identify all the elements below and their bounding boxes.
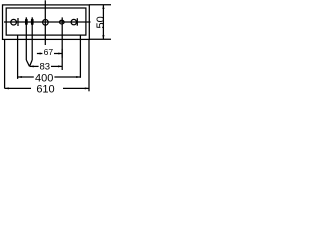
knockout circle B — [43, 20, 49, 26]
50 dim top extension — [89, 4, 111, 6]
dimension line 83 right part — [51, 65, 62, 67]
circle D centerline / extension to rows 1-2 — [61, 17, 63, 70]
50 dim bottom extension — [89, 38, 111, 40]
50 dimension line — [102, 5, 104, 40]
slot S1 centerline extension — [25, 17, 27, 60]
arrowhead 610 right — [85, 87, 89, 89]
svg-text:50: 50 — [95, 16, 107, 28]
mounting hole circle A — [11, 19, 17, 25]
dimension line 83 left part — [30, 65, 39, 67]
arrowhead 400 right — [76, 76, 80, 78]
arrowhead 83 left — [30, 65, 34, 67]
centerline — [4, 21, 91, 23]
slot-pair converging extension for 83 (left leg) — [26, 60, 29, 66]
arrowhead 50 bottom — [102, 35, 104, 39]
extension line 400 right — [79, 35, 81, 78]
arrowhead 610 left — [5, 87, 9, 89]
slot S2 centerline extension — [31, 17, 33, 60]
dimension line 67 left dash — [37, 53, 43, 55]
extension line 400 left — [17, 35, 19, 79]
arrowhead 67 right — [58, 53, 62, 55]
slot-pair converging extension for 83 (right leg) — [30, 60, 33, 66]
svg-text:67: 67 — [44, 47, 54, 57]
dimension line 400 right part — [54, 76, 80, 78]
arrowhead 83 right — [58, 65, 62, 67]
slot S2 oblong — [31, 19, 33, 25]
dimension line 67 right dash — [54, 53, 62, 55]
svg-text:610: 610 — [36, 83, 54, 95]
fixture inner rectangle — [6, 8, 86, 35]
slot S1 oblong — [25, 19, 27, 25]
dimension line 610 right part — [63, 87, 89, 89]
svg-text:83: 83 — [40, 61, 51, 72]
arrowhead 50 top — [102, 5, 104, 9]
circle B long vertical centerline — [44, 0, 46, 45]
small circle D — [60, 20, 65, 24]
dimension line 610 left part — [5, 87, 31, 89]
dimension line 400 left part — [18, 76, 34, 78]
dimension tick 67 right — [61, 49, 63, 58]
keyhole slot line beside circle A — [17, 18, 19, 26]
arrowhead 67 left — [37, 53, 41, 55]
mounting hole circle C — [71, 19, 76, 24]
fixture outer rectangle — [3, 5, 90, 40]
keyhole slot line beside circle C — [76, 18, 78, 26]
arrowhead 400 left — [18, 76, 22, 78]
extension line 610 right — [88, 40, 90, 92]
extension line 610 left — [4, 40, 6, 89]
